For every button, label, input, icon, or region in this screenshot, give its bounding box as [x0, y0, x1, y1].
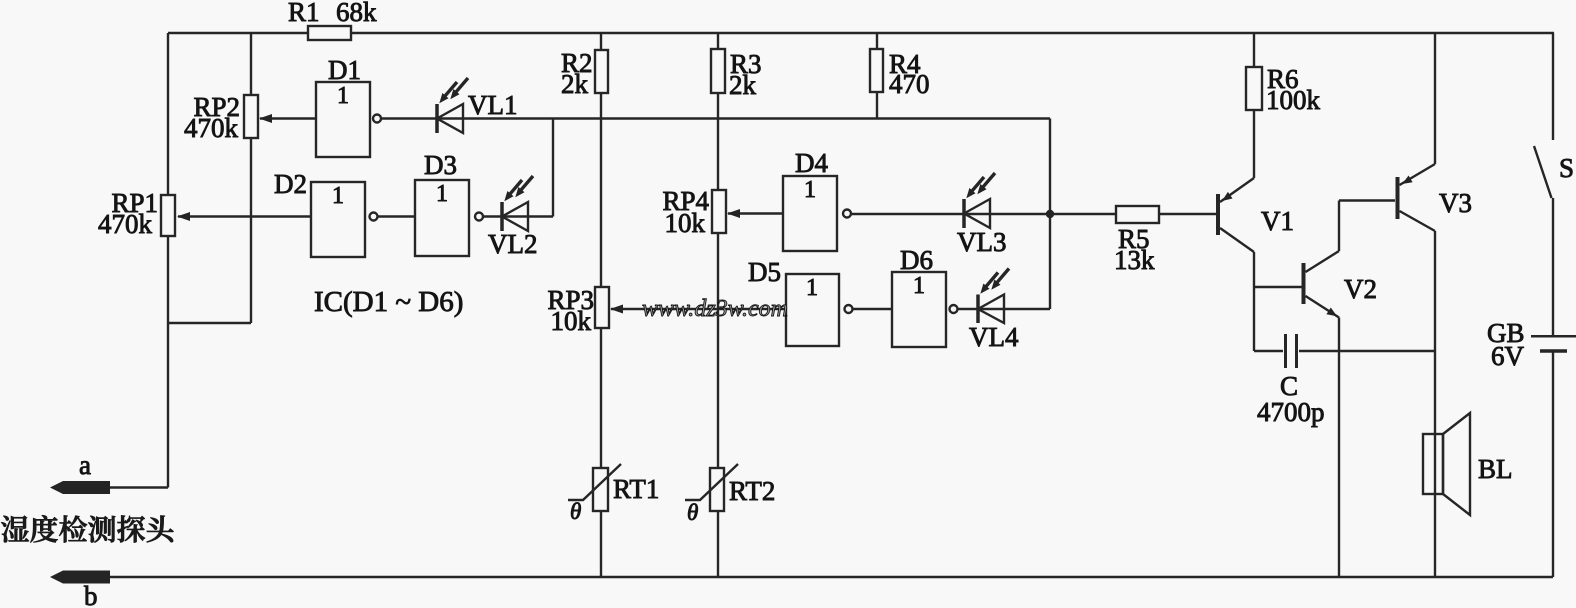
svg-text:D5: D5: [748, 257, 781, 287]
wire switch vertical upper: [1552, 33, 1554, 140]
svg-text:1: 1: [332, 183, 344, 209]
svg-text:470k: 470k: [184, 113, 239, 143]
wire D2 output to D3 input: [378, 215, 416, 217]
transistor V2 collector line: [1306, 251, 1340, 272]
wire left vertical from rail to probe a: [167, 33, 169, 488]
capacitor C right wire: [1299, 350, 1435, 352]
svg-text:VL4: VL4: [969, 322, 1019, 352]
wire node riser from LED bus to VL4 row: [1049, 119, 1051, 310]
svg-text:θ: θ: [687, 500, 698, 525]
wire RP2 wiper to D1 input: [260, 117, 316, 119]
svg-text:470k: 470k: [98, 209, 153, 239]
thermistor RT1 slash: [568, 464, 621, 500]
gate D6 output circle: [950, 305, 958, 313]
node junction dot: [1046, 210, 1054, 218]
wire R3/RP4/RT2 string vertical: [717, 33, 719, 577]
wire V2 collector riser: [1338, 201, 1340, 252]
svg-text:VL3: VL3: [957, 227, 1007, 257]
thermistor RT2 slash: [685, 464, 738, 500]
LED VL1 cathode bar: [435, 104, 439, 133]
capacitor C plates: [1284, 334, 1287, 368]
wire VL2 riser to LED bus: [552, 119, 554, 217]
resistor R5: [1116, 206, 1159, 223]
potentiometer RP4: [712, 190, 726, 233]
svg-text:θ: θ: [570, 499, 581, 524]
thermistor RT2 body: [710, 468, 724, 511]
gate D3 box: [415, 180, 469, 256]
wire V2 emitter vertical to bottom rail: [1338, 318, 1340, 578]
transistor V2 base bar: [1302, 263, 1306, 304]
arrowhead RP3 wiper: [610, 305, 623, 314]
LED VL3 light arrows: [977, 173, 995, 194]
svg-text:2k: 2k: [729, 70, 757, 100]
probe b lug: [50, 571, 110, 584]
arrowhead RP1 wiper: [177, 212, 190, 221]
svg-text:1: 1: [436, 181, 448, 207]
text 湿度检测探头 char 湿: [1, 516, 29, 543]
svg-text:S: S: [1559, 153, 1574, 183]
gate D5 box: [786, 274, 839, 346]
wire RP4 wiper to D4 input: [728, 212, 783, 214]
svg-text:D3: D3: [424, 150, 457, 180]
resistor R1: [308, 26, 351, 40]
svg-text:13k: 13k: [1114, 245, 1155, 275]
resistor R6: [1246, 67, 1262, 110]
svg-text:10k: 10k: [665, 208, 706, 238]
gate D1 box: [316, 82, 370, 157]
gate D2 box: [311, 182, 365, 257]
thermistor RT1 body: [593, 468, 608, 511]
resistor R4: [870, 49, 883, 92]
battery GB long plate: [1531, 335, 1576, 338]
svg-text:D2: D2: [274, 169, 307, 199]
wire probe a to left vertical: [110, 486, 168, 488]
wire R4 branch vertical: [876, 33, 878, 119]
svg-text:100k: 100k: [1266, 85, 1321, 115]
probe a lug: [50, 481, 110, 494]
LED VL4 triangle: [978, 295, 1004, 324]
transistor V3 collector line: [1400, 211, 1436, 231]
gate D5 output circle: [845, 305, 853, 313]
wire top supply rail: [168, 32, 1554, 34]
potentiometer RP3: [595, 287, 609, 328]
transistor V3 base bar: [1396, 177, 1400, 219]
text 湿度检测探头 char 测: [88, 516, 115, 543]
text 湿度检测探头 char 探: [117, 516, 145, 543]
arrowhead RP2 wiper: [259, 114, 272, 123]
transistor V1 emitter arrowhead: [1222, 192, 1233, 201]
gate D6 box: [892, 272, 946, 347]
svg-text:www.dz3w.com: www.dz3w.com: [642, 296, 788, 322]
gate D1 output circle: [373, 115, 381, 123]
svg-text:V2: V2: [1344, 274, 1377, 304]
svg-text:1: 1: [337, 83, 349, 109]
wire RP2 branch vertical: [250, 33, 252, 323]
svg-text:R1: R1: [288, 0, 320, 27]
LED VL4 light arrows: [991, 269, 1009, 290]
battery GB short plate: [1540, 349, 1567, 353]
wire RP1 wiper to D2 input: [178, 215, 311, 217]
svg-text:470: 470: [889, 69, 930, 99]
wire V2 base: [1254, 286, 1302, 288]
wire switch to battery: [1552, 198, 1554, 336]
wire D3 output to VL2 riser: [483, 215, 553, 217]
capacitor C left wire: [1254, 350, 1283, 352]
transistor V1 collector line: [1220, 228, 1254, 252]
LED VL2 triangle: [502, 202, 528, 231]
wire V3 emitter vertical to rail: [1434, 33, 1436, 164]
svg-text:RT1: RT1: [613, 474, 659, 504]
speaker BL frame: [1423, 434, 1443, 494]
wire D6 output through VL4 to node riser: [958, 308, 1051, 310]
wire V3 collector vertical through BL: [1434, 231, 1436, 577]
svg-text:V1: V1: [1261, 206, 1294, 236]
svg-text:D6: D6: [900, 245, 933, 275]
arrowhead RP4 wiper: [727, 209, 740, 218]
LED VL3 triangle: [964, 199, 990, 228]
wire D5 output to D6 input: [853, 308, 893, 310]
gate D4 output circle: [843, 210, 851, 218]
speaker BL horn: [1443, 413, 1470, 515]
gate D3 output circle: [475, 213, 483, 221]
potentiometer RP1: [161, 195, 175, 236]
wire RP3 wiper to D5 input: [611, 308, 786, 310]
svg-text:V3: V3: [1439, 188, 1472, 218]
svg-text:b: b: [84, 581, 98, 608]
svg-text:10k: 10k: [551, 306, 592, 336]
switch S blade: [1534, 146, 1552, 198]
svg-text:4700p: 4700p: [1257, 397, 1325, 427]
svg-text:1: 1: [804, 177, 816, 203]
svg-text:1: 1: [806, 275, 818, 301]
wire V2 collector to V3 base: [1339, 199, 1395, 201]
potentiometer RP2: [244, 95, 258, 138]
text 湿度检测探头 char 头: [147, 516, 174, 543]
text 湿度检测探头 char 检: [59, 515, 87, 542]
transistor V2 emitter line: [1306, 296, 1340, 318]
wire jog RP2 bottom to left vertical: [168, 322, 251, 324]
LED VL1 triangle: [437, 104, 463, 133]
transistor V3 emitter arrowhead: [1402, 176, 1413, 185]
svg-text:VL1: VL1: [468, 90, 518, 120]
svg-text:IC(D1 ~ D6): IC(D1 ~ D6): [314, 286, 463, 318]
wire bottom rail: [110, 576, 1553, 578]
wire V1 collector vertical: [1253, 252, 1255, 351]
transistor V2 emitter arrowhead: [1326, 308, 1337, 317]
wire battery to bottom rail: [1552, 352, 1554, 578]
svg-text:D4: D4: [795, 148, 828, 178]
wire R2/RP3/RT1 string vertical: [600, 33, 602, 577]
svg-text:1: 1: [913, 273, 925, 299]
svg-text:6V: 6V: [1491, 341, 1525, 371]
transistor V1 emitter line: [1220, 178, 1254, 202]
gate D2 output circle: [370, 213, 378, 221]
transistor V1 base bar: [1216, 194, 1220, 235]
LED VL2 light arrows: [515, 176, 533, 197]
resistor R3: [711, 49, 725, 93]
svg-text:2k: 2k: [561, 69, 589, 99]
LED VL2 cathode bar: [500, 202, 504, 231]
LED VL1 light arrows: [450, 78, 468, 99]
wire D4 output through VL3 and node to V1 base: [851, 213, 1217, 215]
transistor V3 emitter line: [1400, 164, 1436, 185]
LED VL4 cathode bar: [976, 295, 980, 324]
svg-text:VL2: VL2: [488, 229, 538, 259]
svg-text:BL: BL: [1478, 454, 1513, 484]
svg-text:D1: D1: [328, 55, 361, 85]
svg-text:RT2: RT2: [729, 476, 775, 506]
LED VL3 cathode bar: [962, 199, 966, 228]
wire LED bus rail (row of VL1): [381, 117, 1050, 119]
gate D4 box: [783, 176, 837, 251]
text 湿度检测探头 char 度: [30, 515, 57, 542]
svg-text:a: a: [79, 450, 91, 480]
wire R6 branch vertical: [1253, 33, 1255, 178]
resistor R2: [595, 50, 608, 93]
svg-text:68k: 68k: [336, 0, 377, 27]
